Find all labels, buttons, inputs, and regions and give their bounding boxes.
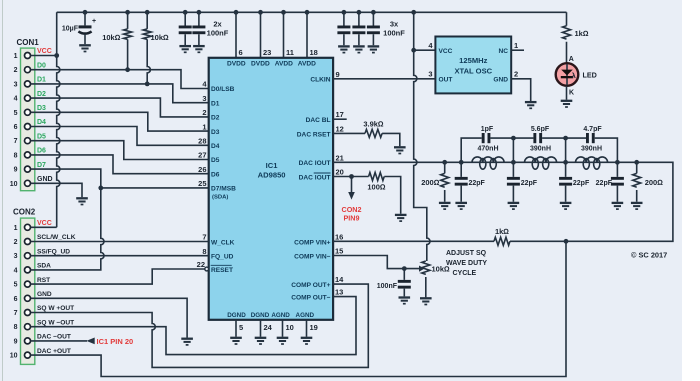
wire CON1 VCC (31, 55, 57, 57)
ground 100nF comp (399, 298, 411, 304)
ground AGND pin10 (277, 338, 289, 344)
ground 22pF 4 (612, 203, 624, 209)
svg-text:23: 23 (263, 48, 271, 57)
capacitor 100nF comp (377, 269, 411, 297)
capacitor 100nF c (337, 10, 350, 45)
wire COMP VIN+ with 1k (333, 240, 566, 242)
wire CON2 GND (31, 298, 188, 337)
svg-text:D0/LSB: D0/LSB (211, 86, 235, 93)
resistor R 1k LED (563, 12, 589, 63)
capacitor C 10uF electrolytic (62, 10, 96, 44)
IC1 left pin numbers (197, 80, 208, 270)
wire D3 to IC pin1 (31, 112, 209, 131)
node riser 4.7pF (563, 136, 568, 141)
svg-text:D4: D4 (211, 143, 220, 150)
svg-text:AVDD: AVDD (298, 61, 316, 68)
wire D0 to IC pin4 (31, 70, 209, 89)
svg-text:7: 7 (14, 138, 18, 145)
node R1 to D0 line (125, 67, 130, 72)
svg-text:COMP OUT−: COMP OUT− (291, 295, 330, 302)
svg-text:D2: D2 (211, 115, 220, 122)
svg-text:8: 8 (14, 324, 18, 331)
wire DAC IOUTbar pin20 (333, 177, 401, 214)
IC1 right pin numbers (335, 70, 344, 297)
svg-text:COMP VIN−: COMP VIN− (294, 254, 330, 261)
ground CON2 (181, 339, 193, 345)
CON2 pin labels (37, 220, 76, 355)
node VIN- 100nF junction (402, 266, 407, 271)
svg-text:100nF: 100nF (377, 283, 398, 290)
wire VCC drop to XTAL and pot with hops (411, 10, 430, 261)
wire DVDD pin6 supply (234, 10, 243, 58)
op-amp IC1 AD9850 block (209, 58, 333, 320)
node R2 to D1 line (145, 82, 150, 87)
ground pot (420, 298, 432, 304)
svg-text:10: 10 (10, 181, 18, 188)
svg-text:DAC BL: DAC BL (306, 117, 331, 124)
LED D1 (556, 56, 597, 97)
svg-text:10µF: 10µF (62, 26, 79, 33)
svg-text:4: 4 (14, 267, 18, 274)
svg-text:27: 27 (198, 151, 206, 160)
svg-text:1kΩ: 1kΩ (495, 227, 509, 236)
capacitor 4.7pF bypass (566, 126, 618, 162)
svg-text:OUT: OUT (439, 76, 453, 83)
ground below 100nF c (338, 46, 350, 52)
svg-text:18: 18 (310, 48, 318, 57)
svg-text:26: 26 (198, 165, 206, 174)
node 22pF 4 (615, 160, 620, 165)
node 22pF 3 (563, 160, 568, 165)
capacitor 100nF bypass b (192, 10, 228, 45)
svg-text:DAC RSET: DAC RSET (297, 131, 331, 138)
ground 100R (395, 215, 407, 221)
resistor R 3.9k DAC RSET (333, 120, 400, 147)
capacitor 22pF 2 (507, 162, 538, 202)
resistor R 100R (367, 173, 386, 192)
svg-text:22pF: 22pF (596, 180, 613, 187)
wire XTAL VCC stub (411, 48, 435, 53)
svg-text:+: + (92, 18, 96, 25)
wire XTAL NC stub pin1 (511, 49, 524, 51)
wire CON2 VCC (31, 226, 57, 228)
wire SQ W -OUT to COMP OUT- pin13 (31, 297, 356, 355)
svg-text:24: 24 (264, 323, 273, 332)
wire SDA up to D7 line with hops (31, 188, 104, 270)
svg-text:28: 28 (198, 137, 206, 146)
svg-text:1kΩ: 1kΩ (575, 29, 589, 38)
svg-text:AGND: AGND (271, 312, 290, 319)
wire AVDD pin18 supply (305, 10, 318, 58)
svg-text:6: 6 (14, 124, 18, 131)
svg-text:3.9kΩ: 3.9kΩ (363, 120, 384, 129)
svg-text:2: 2 (14, 239, 18, 246)
wire CLKIN to XTAL OUT (333, 78, 435, 80)
left page edge artifact (1, 0, 4, 381)
svg-text:2: 2 (14, 67, 18, 74)
svg-text:1: 1 (514, 41, 518, 50)
capacitor 5.6pF bypass (513, 126, 565, 143)
annotation arrow CON2 PIN9 (342, 177, 362, 223)
CON1 pin numbers (10, 53, 18, 188)
svg-text:5: 5 (14, 282, 18, 289)
capacitor 22pF 3 (559, 162, 590, 202)
wire DAC +OUT to filter output (31, 241, 566, 376)
svg-text:9: 9 (14, 338, 18, 345)
svg-text:DGND: DGND (251, 312, 270, 319)
svg-text:D6: D6 (211, 171, 220, 178)
svg-text:4.7pF: 4.7pF (583, 126, 602, 133)
inductor L 470nH (472, 146, 504, 170)
svg-text:6: 6 (239, 48, 243, 57)
svg-text:22: 22 (197, 260, 205, 269)
node filter out to VIN+ and DAC+OUT (564, 239, 569, 244)
svg-text:1: 1 (202, 122, 206, 131)
ground 3.9k (394, 147, 406, 153)
annotation arrow IC1 PIN 20 (86, 337, 133, 346)
connector CON2 (13, 208, 36, 365)
svg-text:XTAL OSC: XTAL OSC (454, 67, 492, 76)
svg-text:390nH: 390nH (581, 146, 602, 153)
svg-text:8: 8 (202, 247, 206, 256)
svg-text:PIN9: PIN9 (344, 214, 360, 223)
svg-text:VCC: VCC (439, 48, 453, 55)
svg-text:3: 3 (14, 81, 18, 88)
svg-text:DVDD: DVDD (227, 61, 246, 68)
wire DVDD pin23 supply (258, 10, 271, 58)
svg-text:AVDD: AVDD (275, 61, 293, 68)
wire DAC IOUT pin21 filter line (333, 162, 673, 241)
svg-text:SQ W −OUT: SQ W −OUT (37, 319, 74, 326)
node 200R right (634, 160, 639, 165)
RESET inversion bubble (205, 267, 209, 271)
IC1 bottom ground pins DGND DGND AGND AGND (236, 320, 318, 337)
svg-text:100nF: 100nF (207, 29, 229, 38)
svg-text:2: 2 (202, 108, 206, 117)
svg-text:2x: 2x (213, 20, 222, 29)
svg-text:13: 13 (335, 288, 343, 297)
svg-text:NC: NC (498, 48, 508, 55)
svg-text:GND: GND (493, 76, 508, 83)
svg-text:SS/FQ_UD: SS/FQ_UD (37, 248, 70, 255)
svg-text:VCC: VCC (37, 220, 52, 227)
resistor R 10k pullup 2 (143, 10, 169, 84)
svg-text:5: 5 (239, 323, 243, 332)
annotation copyright (631, 251, 667, 260)
svg-text:7: 7 (14, 310, 18, 317)
CON1 pin circles (25, 53, 31, 187)
svg-text:A: A (569, 56, 574, 63)
svg-text:CON2: CON2 (13, 208, 36, 217)
CON2 pin circles (25, 224, 31, 358)
svg-text:200Ω: 200Ω (645, 178, 664, 187)
svg-text:CON1: CON1 (17, 38, 40, 47)
svg-text:9: 9 (336, 70, 340, 79)
svg-text:1pF: 1pF (481, 126, 494, 133)
capacitor 100nF d (352, 10, 365, 45)
svg-text:100Ω: 100Ω (367, 183, 386, 192)
svg-text:5.6pF: 5.6pF (531, 126, 550, 133)
wire SQ W +OUT to COMP OUT+ pin14 (31, 284, 369, 367)
svg-text:10: 10 (10, 353, 18, 360)
svg-text:COMP OUT+: COMP OUT+ (291, 282, 330, 289)
svg-text:SDA: SDA (37, 263, 51, 270)
capacitor 22pF 1 (455, 162, 486, 202)
svg-text:SQ W +OUT: SQ W +OUT (37, 305, 74, 312)
wire D5 to IC pin27 (31, 141, 209, 160)
svg-text:3: 3 (202, 94, 206, 103)
svg-text:11: 11 (286, 48, 294, 57)
svg-text:ADJUST SQ: ADJUST SQ (446, 250, 487, 257)
ground XTAL (525, 102, 537, 108)
svg-text:D3: D3 (37, 105, 46, 112)
svg-text:2: 2 (514, 70, 518, 79)
resistor R 1k comp (494, 227, 510, 245)
wire COMP VIN- to pot wiper (333, 256, 419, 269)
resistor R 200R left (421, 162, 448, 202)
wire D1 to IC pin3 (31, 84, 209, 103)
svg-text:GND: GND (37, 176, 53, 183)
svg-text:100nF: 100nF (383, 29, 405, 38)
connector CON1 (17, 38, 40, 191)
svg-text:125MHz: 125MHz (459, 56, 487, 65)
svg-text:D7/MSB: D7/MSB (211, 186, 236, 193)
svg-text:390nH: 390nH (530, 146, 551, 153)
svg-text:IC1 PIN 20: IC1 PIN 20 (97, 337, 134, 346)
svg-text:3: 3 (428, 70, 432, 79)
annotation ADJUST SQ WAVE DUTY CYCLE (446, 250, 487, 277)
wire riser 2 (512, 138, 514, 162)
wire SCL to W_CLK pin7 (31, 241, 209, 243)
ground 200R left (439, 203, 451, 209)
svg-text:470nH: 470nH (477, 146, 498, 153)
svg-text:D7: D7 (37, 162, 46, 169)
ground below 100nF d (353, 46, 365, 52)
node 22pF 2 (511, 160, 516, 165)
node pin20 branch (349, 174, 354, 179)
resistor R 10k pullup 1 (102, 10, 131, 70)
node 22pF 1 (459, 160, 464, 165)
svg-text:K: K (569, 90, 574, 97)
svg-text:DAC IOUT: DAC IOUT (299, 174, 331, 181)
svg-text:D0: D0 (37, 62, 46, 69)
svg-text:DVDD: DVDD (251, 61, 270, 68)
ground below 10uF (79, 45, 91, 51)
svg-text:10kΩ: 10kΩ (151, 33, 170, 42)
svg-text:D3: D3 (211, 129, 220, 136)
wire D2 to IC pin2 (31, 98, 209, 117)
wire D7 to IC pin25 (31, 169, 209, 188)
svg-text:20: 20 (336, 168, 344, 177)
ground CON1 (76, 198, 88, 204)
wire riser 3 (565, 138, 567, 162)
ground AGND pin19 (301, 338, 313, 344)
svg-text:22pF: 22pF (469, 180, 486, 187)
svg-text:8: 8 (14, 152, 18, 159)
svg-text:IC1: IC1 (266, 161, 279, 170)
wire LED cathode (566, 86, 568, 100)
potentiometer 10k wiper arrow (419, 266, 424, 272)
node filter in 200R left (442, 160, 447, 165)
ground below 100nF b (193, 46, 205, 52)
ground below 100nF a (179, 46, 191, 52)
svg-text:GND: GND (37, 291, 52, 298)
potentiometer R 10k (422, 261, 450, 297)
wire AVDD pin11 supply (281, 10, 294, 58)
ground DGND pin5 (230, 338, 242, 344)
svg-text:21: 21 (336, 153, 344, 162)
svg-text:22pF: 22pF (521, 180, 538, 187)
ground 200R right (631, 203, 643, 209)
svg-text:D6: D6 (37, 148, 46, 155)
svg-text:AD9850: AD9850 (258, 171, 286, 180)
svg-text:D4: D4 (37, 119, 46, 126)
svg-text:WAVE DUTY: WAVE DUTY (446, 260, 487, 267)
CON1 pin labels (37, 48, 53, 183)
ground 22pF 1 (455, 203, 467, 209)
svg-text:1: 1 (14, 53, 18, 60)
node SDA joins D7 (98, 186, 103, 191)
svg-text:RESET: RESET (211, 267, 233, 274)
svg-text:17: 17 (336, 110, 344, 119)
svg-text:200Ω: 200Ω (421, 178, 440, 187)
capacitor 22pF 4 (596, 162, 624, 202)
ground LED (561, 101, 573, 107)
svg-text:9: 9 (14, 167, 18, 174)
svg-text:D5: D5 (211, 157, 220, 164)
ground below 100nF e (368, 46, 380, 52)
ground DGND pin24 (255, 338, 267, 344)
ground 22pF 3 (560, 203, 572, 209)
wire SS to FQ_UD pin8 (31, 255, 209, 257)
svg-text:3x: 3x (390, 20, 399, 29)
svg-text:CON2: CON2 (342, 205, 362, 214)
svg-text:10: 10 (286, 323, 294, 332)
svg-text:DAC IOUT: DAC IOUT (299, 160, 331, 167)
svg-text:14: 14 (335, 275, 344, 284)
svg-text:7: 7 (202, 233, 206, 242)
wire DAC BL stub pin17 (333, 118, 347, 120)
wire XTAL GND pin2 (511, 79, 531, 101)
wire VCC bus vertical CON1-CON2 with hops (57, 12, 60, 227)
svg-text:3: 3 (14, 253, 18, 260)
wire DAC -OUT stub (31, 340, 87, 342)
svg-text:(SDA): (SDA) (212, 195, 228, 201)
svg-text:25: 25 (198, 179, 206, 188)
oscillator module 125MHz XTAL OSC (428, 37, 518, 94)
svg-text:COMP VIN+: COMP VIN+ (294, 239, 330, 246)
svg-text:CYCLE: CYCLE (453, 270, 477, 277)
svg-text:10kΩ: 10kΩ (102, 33, 121, 42)
wire RST to RESET pin22 (31, 269, 205, 284)
svg-text:D1: D1 (211, 100, 220, 107)
ground 22pF 2 (508, 203, 520, 209)
wire CON1 GND (31, 183, 82, 197)
capacitor 1pF bypass (461, 126, 513, 162)
wire D6 to IC pin26 (31, 155, 209, 174)
wire VCC top rail (57, 11, 567, 13)
svg-text:AGND: AGND (296, 312, 315, 319)
svg-text:LED: LED (583, 71, 597, 80)
svg-text:1: 1 (14, 225, 18, 232)
svg-text:FQ_UD: FQ_UD (211, 254, 234, 261)
svg-text:λ: λ (572, 71, 576, 80)
svg-text:19: 19 (310, 323, 318, 332)
node VCC junction CON1 pin1 (54, 53, 59, 58)
svg-text:12: 12 (336, 124, 344, 133)
wire D4 to IC pin28 (31, 127, 209, 146)
capacitor 100nF bypass a (179, 10, 192, 45)
svg-text:D5: D5 (37, 133, 46, 140)
svg-text:4: 4 (14, 96, 18, 103)
inductor L 390nH 2 (576, 146, 608, 170)
node riser 5.6pF (511, 136, 516, 141)
svg-text:D2: D2 (37, 91, 46, 98)
svg-text:5: 5 (14, 110, 18, 117)
svg-text:© SC 2017: © SC 2017 (631, 251, 667, 260)
svg-text:DGND: DGND (227, 312, 246, 319)
svg-text:22pF: 22pF (573, 180, 590, 187)
svg-text:W_CLK: W_CLK (211, 239, 235, 246)
resistor R 200R right (633, 162, 664, 202)
svg-text:DAC +OUT: DAC +OUT (37, 348, 71, 355)
svg-text:16: 16 (335, 232, 343, 241)
svg-text:D1: D1 (37, 77, 46, 84)
svg-text:SCL/W_CLK: SCL/W_CLK (37, 234, 76, 241)
svg-text:VCC: VCC (37, 48, 52, 55)
capacitor 100nF e (367, 10, 405, 45)
svg-text:6: 6 (14, 296, 18, 303)
svg-text:RST: RST (37, 277, 50, 284)
CON2 pin numbers (10, 225, 18, 360)
inductor L 390nH 1 (525, 146, 557, 170)
svg-text:15: 15 (335, 247, 343, 256)
svg-text:CLKIN: CLKIN (310, 77, 330, 84)
svg-text:DAC −OUT: DAC −OUT (37, 334, 71, 341)
